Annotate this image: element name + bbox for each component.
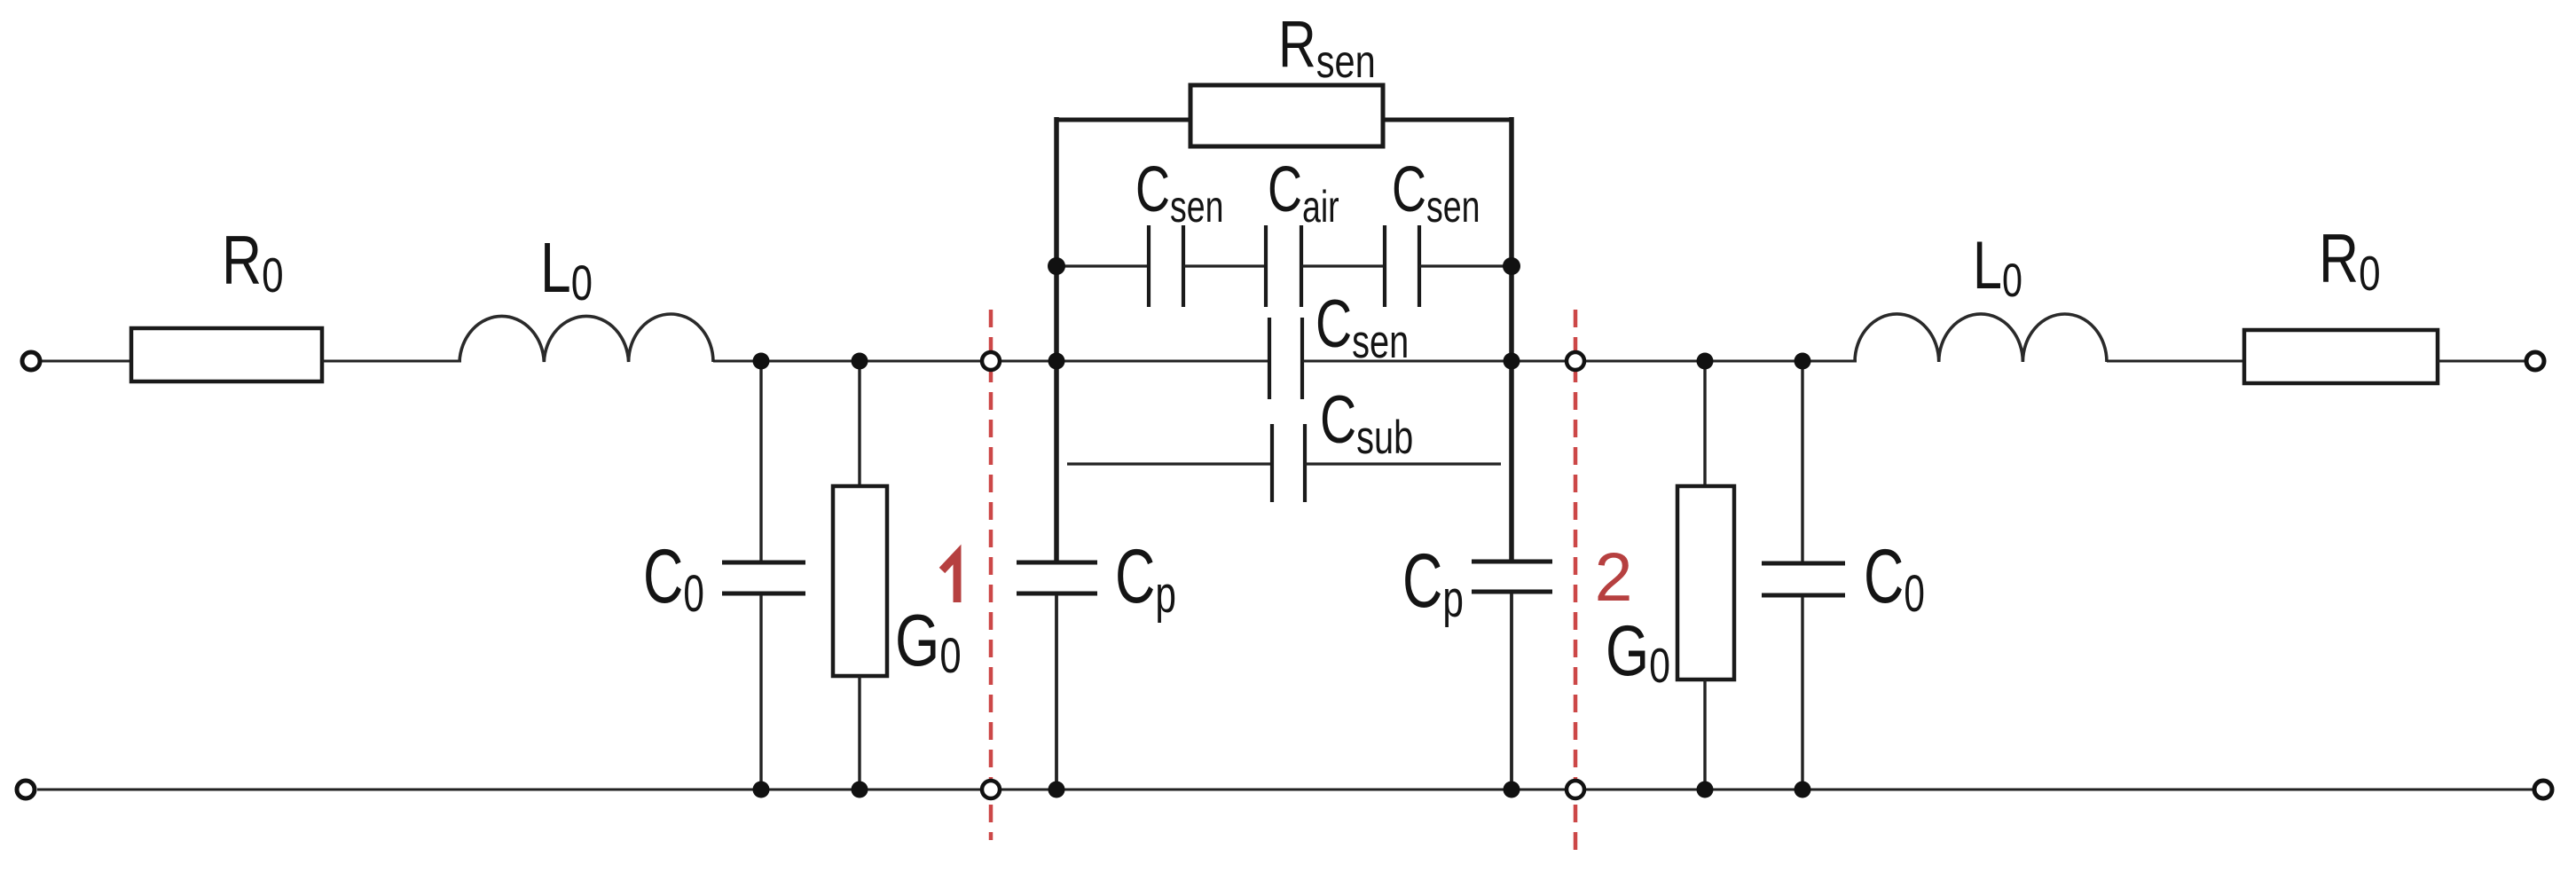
label R0 left bbox=[222, 221, 284, 302]
node dot C0 left bottom bbox=[753, 782, 770, 798]
svg-text:2: 2 bbox=[1595, 539, 1633, 616]
node dot loop right bottom bbox=[1504, 782, 1520, 798]
node dot G0 right bottom bbox=[1697, 782, 1714, 798]
series caps row wire seg1 bbox=[1056, 264, 1151, 267]
shunt C0 right branch lower wire bbox=[1801, 597, 1803, 790]
label G0 right bbox=[1606, 611, 1670, 694]
label Csub bbox=[1320, 382, 1413, 463]
shunt G0 right branch upper wire bbox=[1703, 361, 1706, 488]
node dot G0 left bottom bbox=[852, 782, 868, 798]
capacitor C0 left plates bbox=[722, 561, 805, 565]
shunt G0 left branch lower wire bbox=[858, 676, 860, 790]
reference plane 1 dashed line bbox=[989, 310, 993, 840]
conductance G0 right box bbox=[1677, 486, 1734, 680]
node dot loop left bottom bbox=[1048, 782, 1065, 798]
wire from L0 to node region bbox=[713, 360, 1268, 363]
capacitor Csen upper-left plates bbox=[1147, 225, 1151, 307]
port node 1 bottom open circle bbox=[982, 781, 1000, 798]
capacitor Csen middle plates bbox=[1268, 318, 1271, 399]
series caps row wire seg2 bbox=[1183, 264, 1268, 267]
wire bottom rail bbox=[37, 789, 2533, 791]
wire top main rail left segment bbox=[41, 360, 133, 363]
port node 2 bottom open circle bbox=[1567, 781, 1584, 798]
shunt C0 left branch lower wire bbox=[759, 595, 762, 790]
shunt C0 right branch upper wire bbox=[1801, 361, 1803, 562]
port node 1 top open circle bbox=[982, 352, 1000, 370]
label Cp right bbox=[1402, 538, 1464, 627]
series caps row wire seg3 bbox=[1301, 264, 1386, 267]
label Csen upper-right bbox=[1392, 154, 1480, 232]
inductor L0 right bbox=[1855, 314, 2107, 362]
node dot loop left top bbox=[1048, 353, 1065, 370]
capacitor Csub left lead bbox=[1067, 462, 1274, 465]
terminal right top bbox=[2526, 352, 2544, 370]
label Csen middle bbox=[1315, 287, 1409, 367]
capacitor Csen upper-right plates bbox=[1383, 225, 1386, 307]
node dot G0 left top bbox=[852, 353, 868, 370]
label L0 right bbox=[1973, 228, 2022, 307]
capacitor C0 right plates bbox=[1762, 562, 1845, 566]
label Rsen bbox=[1278, 8, 1376, 87]
capacitor Cp right plates bbox=[1472, 560, 1552, 564]
label L0 left bbox=[540, 229, 593, 311]
resistor Rsen box bbox=[1190, 85, 1383, 146]
wire main rail from Csen to right side bbox=[1302, 360, 1857, 363]
reference plane 2 dashed line bbox=[1574, 310, 1578, 853]
sensor loop top wire right bbox=[1381, 118, 1513, 122]
terminal right bottom bbox=[2534, 781, 2552, 798]
node dot C0 right top bbox=[1795, 353, 1811, 370]
sensor loop left vertical bbox=[1054, 117, 1059, 561]
shunt G0 left branch upper wire bbox=[858, 361, 860, 488]
label Cair bbox=[1268, 154, 1339, 232]
wire from R0 right to terminal bbox=[2438, 360, 2526, 363]
terminal left bottom bbox=[17, 781, 35, 798]
port node 2 top open circle bbox=[1567, 352, 1584, 370]
node dot C0 right bottom bbox=[1795, 782, 1811, 798]
Cp left lower wire bbox=[1055, 595, 1058, 790]
label 1 red bbox=[942, 554, 957, 602]
capacitor Csub right lead bbox=[1305, 462, 1501, 465]
node dot series row right bbox=[1503, 257, 1520, 275]
shunt C0 left branch upper wire bbox=[759, 361, 762, 561]
capacitor Cair plates bbox=[1264, 225, 1268, 307]
node dot series row left bbox=[1048, 257, 1065, 275]
sensor loop right vertical bbox=[1509, 117, 1514, 560]
shunt G0 right branch lower wire bbox=[1703, 680, 1706, 790]
node dot G0 right top bbox=[1697, 353, 1714, 370]
label Cp left bbox=[1115, 533, 1176, 623]
node dot loop right top bbox=[1504, 353, 1520, 370]
label R0 right bbox=[2319, 219, 2381, 301]
label C0 right bbox=[1864, 533, 1925, 622]
label C0 left bbox=[643, 533, 704, 622]
conductance G0 left box bbox=[833, 486, 887, 676]
Cp right lower wire bbox=[1510, 593, 1513, 790]
resistor R0 right box bbox=[2244, 330, 2438, 383]
series caps row wire seg4 bbox=[1419, 264, 1512, 267]
label G0 left bbox=[895, 599, 962, 683]
node dot C0 left top bbox=[753, 353, 770, 370]
terminal left top bbox=[22, 352, 40, 370]
wire between L0 and R0 right bbox=[2107, 360, 2246, 363]
capacitor Csub plates bbox=[1270, 424, 1274, 502]
capacitor Cp left plates bbox=[1017, 561, 1097, 565]
wire between R0 and L0 left bbox=[322, 360, 461, 363]
label Csen upper-left bbox=[1135, 154, 1223, 232]
inductor L0 left bbox=[459, 314, 713, 362]
resistor R0 left box bbox=[131, 328, 322, 381]
sensor loop top wire left bbox=[1055, 118, 1192, 122]
